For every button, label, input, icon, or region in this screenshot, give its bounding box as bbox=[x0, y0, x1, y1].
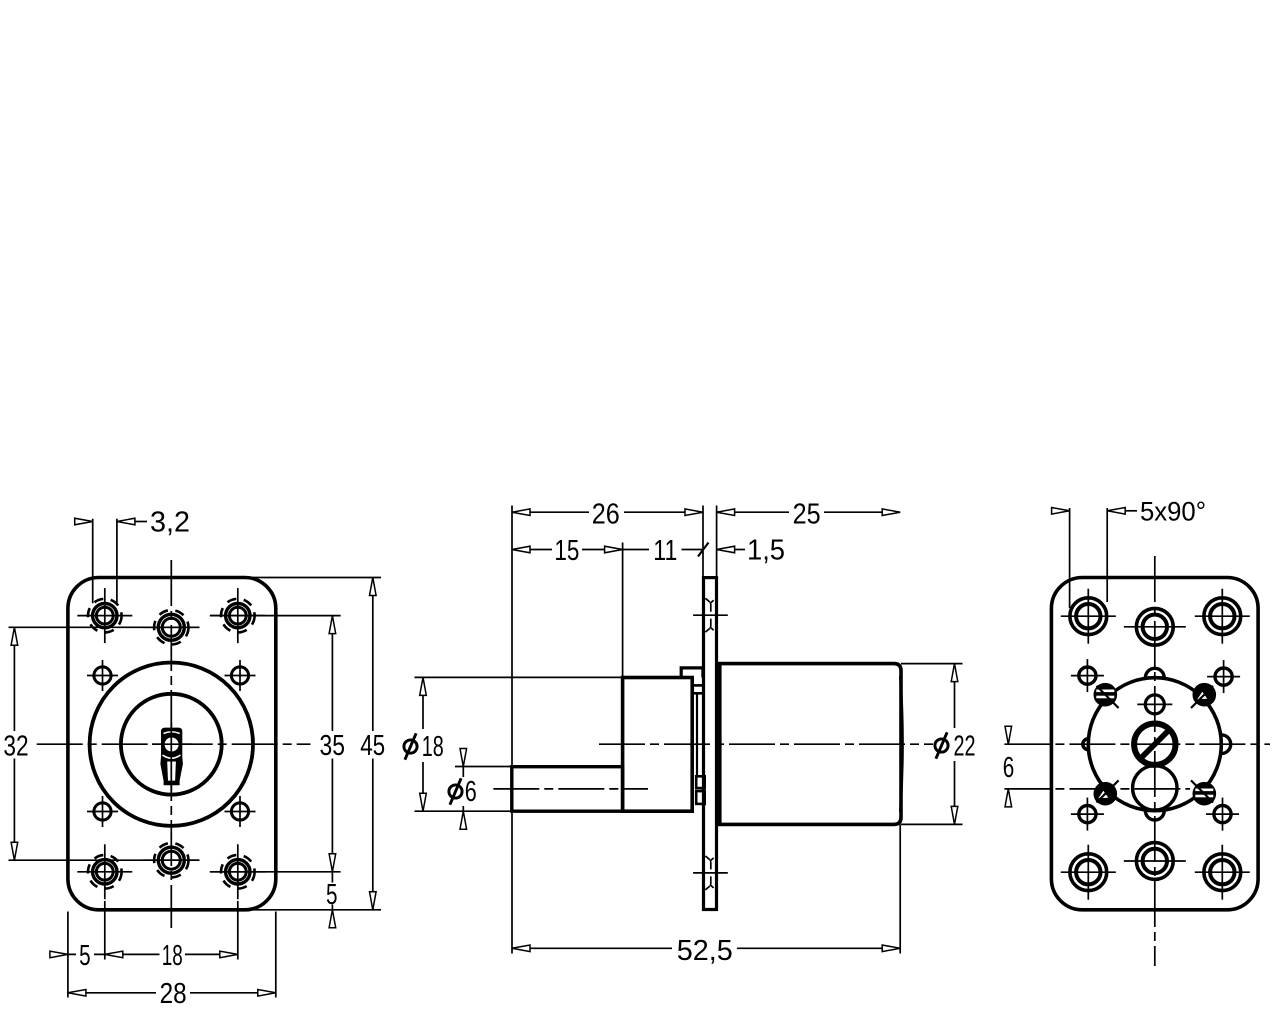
rear view: small hole in cam disc bbox=[1145, 695, 1164, 714]
rear view: cam disc circle bbox=[1088, 678, 1221, 811]
front view: plug circle bbox=[121, 694, 222, 795]
rear view: lower-left rivet with radial mark bbox=[1095, 780, 1118, 804]
dim 26/25: plate-right extension line bbox=[716, 506, 718, 578]
front view: cylinder housing outer circle ø22 bbox=[90, 663, 253, 826]
svg-text:45: 45 bbox=[360, 730, 385, 762]
rear view: top-right countersunk mounting hole bbox=[1195, 589, 1250, 644]
dim ø18: diameter symbol bbox=[404, 740, 417, 753]
dim 52,5: dimension line right bbox=[737, 947, 900, 949]
rear view: top detent bump bbox=[1145, 668, 1164, 677]
dim 1,5: arrow at plate bbox=[717, 546, 735, 553]
dim 3,2: left arrow bbox=[75, 518, 93, 525]
dim ø22: upper arrow bbox=[951, 664, 958, 682]
front view: keyhole circular opening bbox=[165, 738, 179, 752]
dim 25: dimension line right bbox=[824, 511, 900, 513]
front view: upper-right small pin hole bbox=[225, 660, 256, 691]
svg-text:25: 25 bbox=[793, 499, 821, 531]
dim 11: dimension line right bbox=[682, 549, 704, 551]
dim ø6: dimension line stub lower bbox=[462, 806, 464, 811]
dim ø18: dimension line upper bbox=[422, 677, 424, 729]
front view: centerline through keyhole (horizontal) bbox=[152, 743, 192, 745]
dim 3,2: leader line bbox=[135, 521, 147, 523]
dim 52,5: left extension line bbox=[511, 811, 513, 953]
rear view: upper-right rivet with radial mark bbox=[1191, 685, 1215, 709]
dim 25: dimension line left bbox=[717, 511, 789, 513]
svg-text:5: 5 bbox=[79, 940, 91, 972]
dim 5x90: leader line bbox=[1125, 510, 1137, 512]
front view: keyhole bow detail arc bbox=[164, 732, 180, 734]
dim 15: dimension line left bbox=[512, 549, 552, 551]
front view: top-right mounting hole ø3.2 with counterbore bbox=[210, 588, 265, 643]
dim 25: left arrow bbox=[717, 509, 735, 516]
side view: face plate (1.5 thick) bbox=[704, 578, 717, 910]
dim 28: dimension line right bbox=[190, 992, 276, 994]
dim 32: dimension line lower bbox=[13, 759, 15, 861]
front view: bottom-left mounting hole ø3.2 with counterbore bbox=[77, 844, 132, 899]
dim 5/18 bottom: right hole extension line bbox=[237, 901, 239, 960]
dim 52,5: right arrow bbox=[882, 945, 900, 952]
dim ø18: lower arrow bbox=[420, 793, 427, 811]
dim ø22: lower extension line bbox=[901, 823, 963, 825]
dim 26: left extension line bbox=[511, 506, 513, 767]
dim 18 bottom: text mask bbox=[160, 941, 186, 967]
svg-text:15: 15 bbox=[554, 535, 579, 567]
dim ø6: dimension line stub upper bbox=[462, 767, 464, 778]
dim 26: left arrow bbox=[512, 509, 530, 516]
dim 3,2: right arrow bbox=[117, 518, 135, 525]
dim 15: dimension line right bbox=[582, 549, 623, 551]
side view: countersunk hole in plate (top) bbox=[693, 598, 728, 632]
rear view: bottom-center countersunk mounting hole bbox=[1124, 843, 1186, 880]
rear view: lower-right rivet with radial mark bbox=[1191, 780, 1215, 804]
rear view: bottom-left countersunk mounting hole bbox=[1061, 845, 1116, 900]
dim 28: dimension line left bbox=[68, 992, 156, 994]
svg-text:5: 5 bbox=[326, 879, 338, 911]
dim ø22: dimension line upper bbox=[954, 664, 956, 728]
dim 35: lower arrow (shared with dim 5) bbox=[329, 854, 336, 872]
front view: keyhole bow (black key profile) bbox=[160, 728, 183, 786]
side view: rear cylinder ø22 bbox=[720, 664, 901, 825]
svg-text:6: 6 bbox=[1003, 752, 1015, 784]
dim 18 bottom: left arrow bbox=[105, 951, 123, 958]
dim 32: upper arrow bbox=[11, 627, 18, 645]
front view: bottom-right mounting hole ø3.2 with counterbore bbox=[210, 844, 265, 899]
svg-text:6: 6 bbox=[465, 776, 477, 808]
dim 5 bottom: text mask bbox=[76, 941, 94, 967]
rear view: horizontal centerline bbox=[1004, 743, 1270, 745]
dim 18 bottom: right arrow bbox=[220, 951, 238, 958]
dim 28: left extension line bbox=[67, 912, 69, 998]
dim 28: left arrow bbox=[68, 990, 86, 997]
dim 26: dimension line right bbox=[624, 511, 703, 513]
dim 26: dimension line left bbox=[512, 511, 589, 513]
rear view: pin axis centerline bbox=[1004, 788, 1190, 790]
rear view: bottom detent bump bbox=[1145, 811, 1164, 820]
dim ø18: dimension line lower bbox=[422, 762, 424, 811]
dim ø18: upper arrow bbox=[420, 677, 427, 695]
svg-text:35: 35 bbox=[320, 730, 345, 762]
rear view: upper-right small pin hole bbox=[1207, 660, 1240, 693]
dim 45: dimension line lower bbox=[372, 759, 374, 910]
dim 28: right extension line bbox=[275, 912, 277, 998]
dim 5 bottom: outside arrow bbox=[50, 951, 68, 958]
dim 5x90: right arrow bbox=[1107, 508, 1125, 515]
dim 15: right arrow bbox=[605, 546, 623, 553]
dim 26/25: plate-left extension line bbox=[702, 506, 704, 578]
front view: keyhole blade slot bbox=[167, 762, 176, 781]
rear view: locking pin circle ø6 bbox=[1133, 766, 1177, 810]
dim ø22: lower arrow bbox=[951, 806, 958, 824]
front view: vertical centerline bbox=[170, 560, 172, 928]
svg-text:52,5: 52,5 bbox=[677, 935, 733, 967]
svg-text:28: 28 bbox=[160, 978, 187, 1010]
dim ø6: upper outside arrow bbox=[460, 749, 467, 767]
front view: bottom-center mounting hole with counterbore bbox=[143, 843, 199, 877]
dim 35: dimension line upper bbox=[331, 616, 333, 731]
rear view: right detent bump bbox=[1221, 735, 1230, 754]
side view: locking pin ø6 body bbox=[512, 767, 623, 812]
front view: lower-right small pin hole bbox=[225, 796, 256, 827]
rear view: lower-left small pin hole bbox=[1071, 798, 1104, 831]
front view: mounting plate outline bbox=[68, 578, 276, 910]
dim 45: lower arrow bbox=[370, 892, 377, 910]
side view: retaining clip wire bbox=[696, 693, 698, 776]
side view: cylinder body ø18 bbox=[623, 678, 693, 812]
side view: locking pin axis centerline bbox=[493, 788, 648, 790]
side view: rear cylinder end-cap arc bbox=[900, 676, 902, 812]
dim ø6: upper extension line bbox=[455, 766, 512, 768]
dim ø6: diameter symbol bbox=[449, 785, 462, 798]
dim 3,2: right extension line bbox=[116, 519, 118, 603]
rear view: upper-left small pin hole bbox=[1071, 659, 1104, 692]
dim 6: upper arrow above axis bbox=[1005, 726, 1012, 744]
dim 32: upper extension line bbox=[9, 626, 200, 628]
dim ø22: upper extension line bbox=[901, 663, 963, 665]
svg-text:22: 22 bbox=[954, 731, 976, 763]
rear view: top-left countersunk mounting hole bbox=[1061, 589, 1116, 644]
dim ø22: diameter symbol bbox=[935, 739, 948, 752]
front view: upper-left small pin hole bbox=[87, 660, 118, 691]
rear view: upper-left rivet with radial mark bbox=[1095, 685, 1118, 709]
dim 25: right arrow bbox=[882, 509, 900, 516]
dim 3,2: left extension line bbox=[92, 519, 94, 604]
dim 52,5: left arrow bbox=[512, 945, 530, 952]
rear view: mounting plate outline bbox=[1051, 578, 1258, 910]
front view: keyhole collar arc bbox=[163, 755, 181, 758]
svg-text:32: 32 bbox=[3, 730, 28, 762]
rear view: cam shaft ring bbox=[1134, 724, 1175, 765]
dim 52,5: dimension line left bbox=[512, 947, 672, 949]
dim 5x90: right extension line bbox=[1106, 508, 1108, 602]
dim 45: lower extension line bbox=[248, 909, 381, 911]
dim 5/18 bottom: left hole extension line bbox=[104, 901, 106, 960]
side view: countersunk hole in plate (bottom) bbox=[693, 856, 728, 890]
dim 5x90: left extension line bbox=[1069, 508, 1071, 608]
dim 35: dimension line lower bbox=[331, 759, 333, 872]
svg-text:26: 26 bbox=[592, 499, 620, 531]
side view: lower clip detail lower bbox=[696, 791, 705, 804]
side view: upper clip detail bbox=[693, 685, 704, 693]
rear view: vertical centerline bbox=[1154, 556, 1156, 966]
front view: top-center mounting hole with counterbore bbox=[143, 610, 199, 644]
dim 6: lower arrow below pin axis bbox=[1005, 789, 1012, 807]
dim 45: dimension line upper bbox=[372, 578, 374, 732]
dim 32: lower extension line bbox=[9, 859, 200, 861]
dim 5 right: dimension line lower stub bbox=[331, 905, 333, 910]
svg-text:18: 18 bbox=[162, 940, 183, 972]
rear view: screwdriver slot bbox=[1138, 727, 1172, 761]
side view: lower clip detail upper bbox=[696, 776, 705, 788]
dim 28: right arrow bbox=[258, 990, 276, 997]
dim 15: left arrow bbox=[512, 546, 530, 553]
dim 11: oblique terminator bbox=[698, 543, 709, 557]
rear view: bottom-right countersunk mounting hole bbox=[1195, 845, 1250, 900]
svg-text:18: 18 bbox=[422, 731, 444, 763]
dim 35: upper arrow bbox=[329, 616, 336, 634]
rear view: lower-right small pin hole bbox=[1206, 798, 1239, 831]
dim 52,5: right extension line bbox=[899, 824, 901, 953]
dim ø22: dimension line lower bbox=[954, 761, 956, 824]
dim 15/11: body-left extension line bbox=[622, 543, 624, 678]
dim 35: lower extension line bbox=[210, 871, 341, 873]
svg-text:11: 11 bbox=[653, 535, 677, 567]
svg-text:5x90°: 5x90° bbox=[1140, 497, 1206, 527]
front view: lower-left small pin hole bbox=[87, 796, 118, 827]
dim 11: dimension line left bbox=[623, 549, 649, 551]
dim 5/18 bottom: dimension line bbox=[68, 953, 238, 955]
front view: top-left mounting hole ø3.2 with counterbore bbox=[77, 588, 132, 643]
side view: retaining tab on body bbox=[681, 668, 703, 678]
dim ø18: upper extension line bbox=[415, 676, 623, 678]
dim 32: dimension line upper bbox=[13, 627, 15, 731]
front view: centerline through keyhole (vertical) bbox=[170, 722, 172, 793]
svg-text:3,2: 3,2 bbox=[150, 507, 190, 539]
dim 5 right: lower arrow below bbox=[329, 910, 336, 928]
dim 26: right arrow bbox=[685, 509, 703, 516]
dim 1,5: leader line bbox=[735, 549, 745, 551]
rear view: left detent bump bbox=[1083, 739, 1089, 750]
dim 5 right: dimension line upper stub bbox=[331, 872, 333, 883]
side view: main axis centerline bbox=[599, 743, 933, 745]
front view: horizontal centerline bbox=[37, 743, 311, 745]
svg-text:1,5: 1,5 bbox=[747, 535, 785, 567]
dim ø18: lower extension line bbox=[415, 810, 512, 812]
dim ø6: lower outside arrow bbox=[460, 811, 467, 829]
dim 35: upper extension line bbox=[210, 615, 341, 617]
rear view: top-center countersunk mounting hole bbox=[1124, 608, 1186, 645]
dim 32: lower arrow bbox=[11, 842, 18, 860]
dim 45: upper arrow bbox=[370, 578, 377, 596]
dim 5x90: left arrow bbox=[1052, 508, 1070, 515]
dim 45: upper extension line bbox=[248, 577, 381, 579]
